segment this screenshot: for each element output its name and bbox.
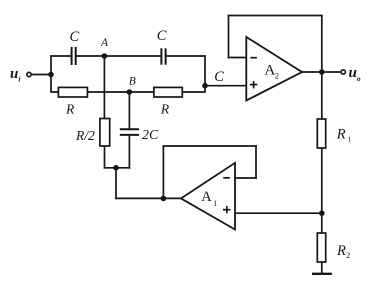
svg-text:C: C [157,28,167,44]
capacitor C1 [72,47,76,65]
svg-text:R: R [336,126,346,142]
capacitor 2C [120,129,139,135]
divider junction node [319,210,325,216]
wire A2 feedback stub from minus input [229,57,247,59]
op-amp A2 minus sign [250,57,257,59]
resistor R/2 (vertical) [100,119,110,147]
wire node B down to capacitor 2C [128,92,130,130]
wire second R to jog up into node C [182,86,205,92]
svg-text:R: R [65,102,75,117]
wire input junction up to top row [51,56,71,75]
wire A2 feedback top [229,15,322,17]
wire capacitor 2C bottom to join row [128,135,130,168]
svg-text:A: A [100,37,109,49]
wire A2 output to terminal [302,71,341,73]
svg-text:o: o [357,74,361,83]
svg-text:C: C [70,29,80,45]
wire A2 feedback right vertical down to output node [321,16,323,73]
wire bootstrap to op-amp A1 output apex [116,197,182,199]
wire capacitor C1 to node A to capacitor C2 [76,55,160,57]
op-amp A1 triangle [181,163,235,230]
wire node C to op-amp A2 plus input [205,85,246,87]
svg-text:A: A [264,63,275,79]
A1 output junction node [161,196,167,202]
svg-text:1: 1 [347,135,351,144]
wire R2 to ground [321,262,323,273]
wire bootstrap junction down [115,168,117,199]
capacitor C2 [161,48,165,64]
wire input terminal to input junction [31,74,51,76]
wire A1 plus input to divider junction [235,212,322,214]
wire A2 feedback left vertical [228,16,230,58]
svg-text:u: u [349,65,357,81]
wire node A down to R/2 [103,56,105,119]
resistor R (second, horizontal) [154,87,182,97]
svg-text:C: C [214,69,224,85]
svg-text:i: i [18,74,21,83]
wire R/2 bottom to join row [104,146,106,168]
wire input junction down to resistor row [51,75,58,93]
svg-text:1: 1 [213,199,217,208]
op-amp A1 minus sign [223,177,230,179]
svg-text:R: R [336,243,346,259]
node A [102,53,108,59]
input junction node [48,72,54,78]
wire A1 feedback left vertical [162,146,164,198]
svg-text:2: 2 [275,71,279,81]
svg-text:R: R [160,102,170,117]
bootstrap junction node [113,165,119,171]
wire A1 feedback stub to minus input [235,177,256,179]
svg-text:2: 2 [346,251,350,260]
svg-text:2C: 2C [142,128,159,143]
op-amp A2 plus sign [250,81,258,89]
wire capacitor C2 right then down to node C [166,56,205,86]
input terminal circle [27,72,31,76]
node B [127,89,133,95]
ground [312,273,332,275]
wire A1 feedback top [163,145,256,147]
wire first R to node B to second R [87,91,153,93]
svg-text:A: A [201,189,212,205]
output terminal circle [341,70,345,74]
wire A1 feedback right vertical [255,146,257,178]
op-amp A1 plus sign [223,206,231,213]
wire R1 to divider junction to R2 [321,148,323,233]
op-amp A2 triangle [246,37,302,101]
wire join row under R/2 and 2C [105,167,130,169]
resistor R1 (vertical) [317,119,325,148]
wire output node down to R1 [321,72,323,119]
output junction node [319,69,325,75]
node C [202,83,208,89]
resistor R2 (vertical) [317,233,325,262]
svg-text:R/2: R/2 [75,128,95,143]
svg-text:u: u [10,66,18,82]
svg-text:B: B [129,75,136,87]
resistor R (first, horizontal) [58,87,87,97]
